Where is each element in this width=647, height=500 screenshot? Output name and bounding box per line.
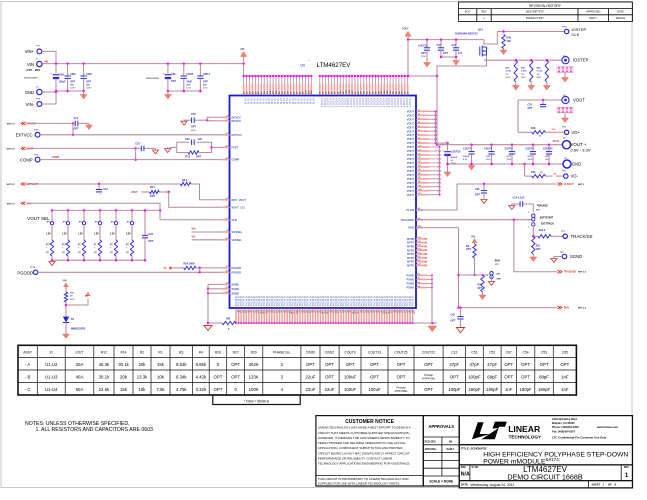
svg-text:GND: GND: [572, 161, 581, 166]
svg-text:VFB: VFB: [232, 218, 237, 222]
svg-text:OPT: OPT: [214, 387, 223, 392]
svg-text:C15: C15: [437, 44, 442, 47]
svg-text:Phone: (408)432-1900: Phone: (408)432-1900: [552, 425, 579, 429]
svg-text:6.34k: 6.34k: [176, 374, 187, 379]
svg-text:OPT: OPT: [521, 374, 530, 379]
svg-text:100uF: 100uF: [344, 374, 357, 379]
wire RUN from pin: [416, 227, 459, 229]
svg-text:OPT: OPT: [203, 81, 208, 84]
svg-text:VO+: VO+: [572, 130, 581, 135]
svg-text:L11: L11: [418, 149, 421, 151]
svg-text:SHT 3: SHT 3: [578, 184, 585, 186]
capacitor C16 1uF: [455, 40, 457, 48]
svg-text:CIRCUIT BOARD LAYOUT MAY SIGNI: CIRCUIT BOARD LAYOUT MAY SIGNIFICANTLY A…: [318, 451, 410, 455]
svg-text:OPT: OPT: [86, 81, 91, 84]
svg-text:R1: R1: [158, 351, 162, 355]
svg-text:JP6: JP6: [47, 221, 50, 223]
svg-text:30.1k: 30.1k: [99, 374, 110, 379]
svg-text:JP3: JP3: [95, 221, 98, 223]
svg-text:OPT: OPT: [70, 81, 75, 84]
svg-text:2.5V: 2.5V: [110, 234, 115, 236]
svg-text:PRODUCTION: PRODUCTION: [526, 16, 544, 20]
svg-text:35V: 35V: [86, 85, 90, 87]
svg-text:C16: C16: [452, 44, 457, 47]
svg-text:20k: 20k: [139, 362, 147, 367]
svg-text:22.6k: 22.6k: [99, 387, 110, 392]
svg-text:OPT: OPT: [74, 128, 80, 131]
linear technology logo box: [459, 416, 632, 445]
svg-text:VO+: VO+: [552, 129, 557, 131]
svg-text:TP13: TP13: [562, 26, 568, 28]
wire FSET pin: [212, 146, 223, 148]
resistor R54 OPT: [142, 191, 150, 193]
svg-text:R26: R26: [215, 351, 221, 355]
svg-text:COUT34: COUT34: [543, 148, 553, 151]
svg-text:OPT: OPT: [370, 362, 379, 367]
svg-text:OPT: OPT: [325, 362, 334, 367]
svg-text:1. ALL RESISTORS AND CAPACITO: 1. ALL RESISTORS AND CAPACITORS ARE 0603…: [36, 427, 155, 433]
svg-text:C12: C12: [451, 351, 457, 355]
svg-text:OPT: OPT: [504, 362, 513, 367]
svg-text:SUD50N04-08CP-E3: SUD50N04-08CP-E3: [455, 33, 478, 36]
svg-text:VOUT: VOUT: [407, 113, 415, 117]
resistor R26 0: [208, 322, 222, 324]
wire TRACKSS down from jumper: [532, 226, 534, 236]
svg-text:*: *: [94, 247, 95, 249]
svg-text:6.65k: 6.65k: [196, 362, 207, 367]
op-amp U1 LTM4627EV module body: [230, 96, 417, 309]
svg-text:K8: K8: [418, 282, 420, 284]
svg-text:R4: R4: [199, 351, 203, 355]
wire VFB line: [27, 203, 223, 220]
svg-text:2: 2: [487, 275, 488, 277]
wire RUN to off-page: [459, 307, 557, 309]
ground input caps: [83, 91, 85, 95]
svg-text:COUT1: COUT1: [463, 148, 472, 151]
off-page connector TRACKSS: [557, 270, 562, 273]
svg-text:VOUT: VOUT: [408, 98, 412, 108]
svg-text:EXTVCC: EXTVCC: [16, 133, 33, 138]
svg-text:1nF: 1nF: [561, 387, 569, 392]
svg-text:DIFF_VOUT: DIFF_VOUT: [232, 198, 247, 202]
svg-text:1uF: 1uF: [458, 52, 463, 55]
jumper JP6 / resistor R12 branch: [51, 209, 54, 212]
svg-text:www.linear.com: www.linear.com: [596, 425, 619, 429]
svg-text:1%: 1%: [46, 252, 49, 254]
capacitor C61: [136, 147, 141, 149]
wire SGND pins bus: [208, 283, 222, 285]
svg-text:20k: 20k: [120, 374, 128, 379]
svg-text:B12: B12: [225, 146, 228, 148]
svg-text:OPT: OPT: [536, 248, 541, 251]
ground output caps: [468, 166, 475, 171]
svg-text:1630 McCarthy Blvd.: 1630 McCarthy Blvd.: [552, 417, 578, 421]
wire output cap bank bottom rail: [448, 163, 564, 165]
wire second cap bank ground rail: [168, 90, 201, 92]
capacitor C59 OPT 0603: [181, 121, 187, 125]
svg-text:R13: R13: [186, 156, 191, 159]
svg-text:JP1: JP1: [127, 221, 130, 223]
svg-text:- B: - B: [25, 374, 31, 379]
svg-text:M12: M12: [225, 238, 229, 240]
svg-text:OPT: OPT: [150, 195, 156, 198]
svg-text:0.015: 0.015: [537, 71, 543, 73]
svg-text:MTP8: MTP8: [407, 237, 414, 241]
svg-text:VOUT: VOUT: [407, 177, 415, 181]
svg-text:COUT13: COUT13: [368, 351, 381, 355]
svg-text:4.5V - 20V: 4.5V - 20V: [26, 68, 40, 72]
svg-text:THIS CIRCUIT IS PROPRIETARY TO: THIS CIRCUIT IS PROPRIETARY TO LINEAR TE…: [318, 477, 410, 481]
IC left edge pins: [222, 116, 229, 118]
svg-text:08/2011: 08/2011: [616, 16, 626, 20]
svg-text:C69: C69: [171, 73, 176, 76]
svg-text:R29: R29: [251, 351, 257, 355]
off-page connector RUN: [557, 306, 562, 309]
wire TRACKSS to off-page: [514, 220, 557, 272]
svg-text:U1,U2: U1,U2: [45, 362, 58, 367]
capacitor C15 OPT: [440, 40, 442, 48]
wire VOUT pin bus above IC: [320, 75, 437, 77]
svg-text:VOUT: VOUT: [407, 173, 415, 177]
svg-text:L1: L1: [418, 110, 420, 112]
svg-text:VOUT_LCL: VOUT_LCL: [232, 205, 246, 209]
svg-text:100uF: 100uF: [344, 387, 357, 392]
svg-text:CLKOUT: CLKOUT: [564, 183, 574, 186]
wire EXTVCC sht line: [27, 122, 74, 124]
svg-text:180pF: 180pF: [486, 387, 499, 392]
svg-text:R26: R26: [226, 317, 231, 320]
svg-text:F12: F12: [226, 218, 229, 220]
svg-text:68pF: 68pF: [487, 374, 497, 379]
svg-text:C18: C18: [148, 233, 153, 236]
svg-text:VOUT: VOUT: [407, 121, 415, 125]
svg-text:1%: 1%: [537, 74, 540, 76]
svg-text:HOWEVER, IT REMAINS THE CUSTOM: HOWEVER, IT REMAINS THE CUSTOMER'S RESPO…: [318, 436, 411, 440]
svg-text:L6: L6: [418, 129, 420, 131]
svg-text:100pF: 100pF: [468, 374, 481, 379]
wire Q14 source to VOUT node: [437, 60, 487, 76]
svg-text:COUT22: COUT22: [422, 351, 435, 355]
svg-text:OPT: OPT: [370, 374, 379, 379]
svg-text:U1: U1: [300, 64, 305, 68]
svg-text:22uF: 22uF: [306, 387, 316, 392]
svg-text:47pF: 47pF: [487, 362, 497, 367]
wire VOSNB- stub: [192, 239, 223, 241]
resistor R18 10 VO+: [518, 131, 532, 133]
svg-text:C60: C60: [185, 138, 190, 141]
svg-text:M11: M11: [418, 193, 422, 195]
svg-text:VIN: VIN: [471, 235, 475, 238]
svg-text:DATE: DATE: [617, 10, 624, 14]
svg-text:TRACK/SS: TRACK/SS: [401, 218, 415, 222]
svg-text:10k: 10k: [139, 387, 147, 392]
svg-text:C66: C66: [475, 188, 480, 191]
svg-text:1%: 1%: [94, 252, 97, 254]
svg-text:COUT2: COUT2: [484, 148, 493, 151]
IC right edge PLLIN TRACK RUN pins: [416, 209, 423, 211]
off-page connector VFB: [21, 202, 26, 205]
svg-text:TITLE:: TITLE:: [461, 446, 470, 450]
svg-text:DESCRIPTION: DESCRIPTION: [526, 10, 544, 14]
svg-text:VOUT: VOUT: [573, 97, 585, 102]
capacitor COUT4 OPT: [532, 143, 535, 146]
svg-text:R14: R14: [120, 351, 126, 355]
svg-text:25V: 25V: [203, 85, 207, 87]
jumper JP3 / resistor R1 branch: [99, 209, 102, 212]
svg-text:4TPF470ML: 4TPF470ML: [394, 390, 408, 393]
wire output cap bank top rail: [437, 144, 562, 146]
svg-text:CIRCUIT THAT MEETS CUSTOMER-SU: CIRCUIT THAT MEETS CUSTOMER-SUPPLIED SPE…: [318, 431, 410, 435]
svg-text:VIN: VIN: [27, 62, 34, 67]
svg-text:C54: C54: [523, 351, 529, 355]
svg-text:M9: M9: [418, 185, 421, 187]
svg-text:- A: - A: [25, 362, 30, 367]
svg-text:25V: 25V: [186, 85, 190, 87]
svg-text:TRACK/SS: TRACK/SS: [564, 271, 577, 274]
svg-text:VOUT: VOUT: [407, 185, 415, 189]
svg-text:PGND: PGND: [407, 282, 415, 286]
jumper JP4 / resistor R2 branch: [83, 209, 86, 212]
svg-text:OPT: OPT: [148, 240, 154, 243]
svg-text:COUT3: COUT3: [505, 148, 514, 151]
svg-text:LINEAR TECHNOLOGY HAS MADE A B: LINEAR TECHNOLOGY HAS MADE A BEST EFFORT…: [318, 426, 411, 430]
wire RUN line to jumper: [459, 274, 489, 276]
capacitor C66 OPT: [483, 184, 485, 191]
svg-text:IOSTEP: IOSTEP: [573, 58, 589, 63]
svg-text:VOUT: VOUT: [131, 191, 138, 194]
svg-text:R18: R18: [531, 127, 536, 130]
svg-text:TRACKSS: TRACKSS: [537, 204, 549, 207]
wire R34 to PGOOD pin: [196, 267, 222, 269]
resistor R34 100K: [173, 267, 184, 269]
svg-text:OPT: OPT: [346, 362, 355, 367]
ground SGND: [204, 326, 212, 331]
svg-text:4TPF470ML: 4TPF470ML: [422, 377, 436, 380]
svg-text:R27: R27: [233, 351, 239, 355]
svg-text:Wednesday, August 24, 2011: Wednesday, August 24, 2011: [471, 483, 515, 487]
capacitor COUT1 150uF 6.3V: [470, 143, 473, 146]
svg-text:MTP5: MTP5: [407, 248, 414, 252]
svg-text:ASSY: ASSY: [23, 351, 33, 355]
svg-text:OPT: OPT: [560, 362, 569, 367]
svg-text:40A: 40A: [76, 374, 84, 379]
svg-text:100K: 100K: [249, 387, 259, 392]
svg-text:REV.: REV.: [624, 466, 630, 469]
svg-text:PGND: PGND: [407, 278, 415, 282]
svg-text:SOFTSTART: SOFTSTART: [540, 217, 554, 220]
capacitor CIN13 22uF: [183, 64, 185, 76]
svg-text:OPT: OPT: [191, 126, 197, 129]
svg-text:OPT: OPT: [397, 374, 406, 379]
linear technology logo: [472, 422, 507, 440]
svg-text:M8: M8: [418, 286, 421, 288]
ground second cap bank: [167, 91, 169, 95]
svg-text:OPT: OPT: [545, 156, 550, 158]
svg-text:*: *: [62, 247, 63, 249]
svg-text:A12: A12: [225, 197, 228, 200]
capacitor CIN1 150uF: [55, 64, 57, 74]
capacitor COUT19 OPT: [426, 40, 428, 48]
svg-text:1nF: 1nF: [561, 374, 569, 379]
svg-text:OPT: OPT: [171, 80, 176, 83]
svg-text:MTP2: MTP2: [407, 260, 414, 264]
off-page connector DIFFVOUT: [21, 182, 26, 185]
ground C61: [153, 147, 155, 149]
svg-text:VOUT: VOUT: [407, 153, 415, 157]
svg-text:OPT: OPT: [424, 362, 433, 367]
svg-text:C74: C74: [74, 117, 79, 120]
revision history table: [459, 2, 633, 22]
svg-text:VOUT: VOUT: [407, 165, 415, 169]
svg-text:M8: M8: [418, 181, 421, 183]
customer notice box: [316, 416, 423, 486]
svg-text:CIN1: CIN1: [59, 73, 65, 76]
approvals box: [423, 416, 459, 486]
svg-text:3.3V: 3.3V: [126, 234, 131, 236]
svg-text:VIN-: VIN-: [26, 102, 35, 107]
svg-text:Milpitas, CA 95035: Milpitas, CA 95035: [552, 421, 575, 425]
svg-text:U1-U4: U1-U4: [45, 387, 58, 392]
wire Q14 drain: [483, 40, 485, 45]
svg-text:VOUT: VOUT: [407, 125, 415, 129]
svg-text:OPT: OPT: [325, 374, 334, 379]
svg-text:NOTES: UNLESS OTHERWISE SPECIF: NOTES: UNLESS OTHERWISE SPECIFIED,: [25, 421, 130, 427]
svg-text:R12: R12: [101, 351, 107, 355]
svg-text:MTP3: MTP3: [407, 256, 414, 260]
svg-text:CIN13: CIN13: [186, 73, 193, 76]
svg-text:133K: 133K: [249, 374, 259, 379]
svg-text:PGND: PGND: [411, 296, 415, 306]
svg-text:L10: L10: [418, 145, 421, 147]
svg-text:CIN2: CIN2: [70, 73, 76, 76]
svg-text:47pF: 47pF: [449, 362, 459, 367]
wire PGOOD line: [38, 271, 223, 273]
svg-text:0.6V - 3.3V: 0.6V - 3.3V: [571, 148, 591, 153]
ground COUT19: [426, 61, 428, 63]
svg-text:APPLICATION. COMPONENT SUBSTI: APPLICATION. COMPONENT SUBSTITUTION AND …: [318, 446, 403, 450]
svg-text:CIN22: CIN22: [325, 351, 335, 355]
svg-text:TECHNOLOGY APPLICATIONS ENGINE: TECHNOLOGY APPLICATIONS ENGINEERING FOR …: [318, 462, 411, 466]
svg-text:RUN: RUN: [408, 226, 414, 230]
svg-text:INTVCC: INTVCC: [232, 119, 242, 123]
wire VOUT right vertical bus: [435, 111, 437, 143]
svg-text:ON: ON: [497, 274, 501, 276]
svg-text:0.015: 0.015: [521, 71, 527, 73]
svg-text:SHT 2,3: SHT 2,3: [7, 148, 16, 150]
svg-text:47pF: 47pF: [470, 362, 480, 367]
svg-text:30.1k: 30.1k: [118, 362, 129, 367]
IC right edge PGND pins: [416, 274, 432, 276]
size and ic number box: [459, 465, 632, 481]
svg-text:C65: C65: [562, 351, 568, 355]
svg-text:PHASE No.: PHASE No.: [273, 351, 290, 355]
svg-text:TRACK/SS: TRACK/SS: [571, 234, 593, 239]
svg-text:SHEET: SHEET: [592, 483, 601, 487]
wire VOUT SEL top rail: [52, 209, 160, 211]
ground R49: [500, 50, 507, 55]
svg-text:OPT: OPT: [306, 362, 315, 367]
svg-text:VOSNB+: VOSNB+: [232, 230, 243, 234]
svg-text:MMBZ5237B: MMBZ5237B: [71, 327, 85, 330]
svg-text:OPT: OPT: [486, 156, 491, 158]
wire C15 C16 ground rail: [441, 56, 456, 58]
svg-text:APP ENG.: APP ENG.: [425, 448, 437, 451]
svg-text:OPT: OPT: [507, 156, 512, 158]
svg-text:VIN: VIN: [63, 279, 67, 282]
wire PGND bus: [236, 322, 437, 324]
svg-text:4.42k: 4.42k: [196, 374, 207, 379]
ground FSET network: [170, 146, 177, 148]
svg-text:SGND: SGND: [570, 254, 582, 259]
svg-text:0.015: 0.015: [506, 71, 512, 73]
svg-text:- C: - C: [25, 387, 31, 392]
svg-text:E11: E11: [418, 245, 421, 247]
svg-text:COUT25: COUT25: [394, 351, 407, 355]
wire VIN pin bus above IC: [244, 64, 312, 76]
svg-text:22uF: 22uF: [325, 387, 335, 392]
PGND pins bottom comb: [235, 309, 237, 324]
svg-text:L5: L5: [418, 125, 420, 127]
svg-text:DATE:: DATE:: [461, 483, 469, 487]
svg-text:470uF: 470uF: [451, 156, 458, 159]
wire PLLIN stub: [416, 209, 457, 211]
ground C66: [481, 200, 487, 204]
svg-text:180pF: 180pF: [520, 387, 533, 392]
VIN pins top comb: [243, 76, 245, 95]
svg-text:PLLIN: PLLIN: [407, 208, 415, 212]
capacitor C74 OPT: [73, 122, 75, 124]
svg-text:OPT: OPT: [196, 156, 202, 159]
svg-text:1.5V: 1.5V: [78, 234, 83, 236]
svg-text:COMP: COMP: [232, 158, 240, 162]
wire VOUT terminal line: [518, 99, 562, 101]
svg-text:35V: 35V: [70, 85, 74, 87]
svg-text:R34 100K: R34 100K: [184, 262, 195, 265]
ground R46: [546, 82, 548, 86]
svg-text:A11: A11: [225, 157, 228, 160]
wire DIFFVOUT line: [27, 183, 181, 185]
svg-text:RUN: RUN: [495, 260, 500, 262]
wire Q14 source to sense rail: [484, 55, 487, 60]
svg-text:GND: GND: [25, 90, 34, 95]
svg-text:OFF: OFF: [497, 279, 502, 281]
svg-text:OPT: OPT: [504, 374, 513, 379]
svg-text:E12: E12: [418, 249, 421, 251]
wire VOUT top rail: [408, 39, 484, 41]
wire TRACKSS line: [416, 219, 532, 221]
wire right PGND drop: [431, 275, 433, 323]
off-page connector CLKOUT: [557, 182, 562, 185]
svg-text:ECO: ECO: [465, 10, 471, 14]
capacitor CIN2 OPT: [67, 64, 69, 76]
IC right edge VOUT pins: [416, 110, 436, 112]
svg-text:* FSW = 500KHz: * FSW = 500KHz: [244, 400, 270, 404]
svg-text:COMP: COMP: [52, 156, 60, 159]
svg-text:35SVP150MXV: 35SVP150MXV: [24, 78, 39, 80]
svg-text:L8: L8: [418, 137, 420, 139]
svg-text:1.0V: 1.0V: [46, 234, 51, 236]
jumper JP1 / resistor R4 branch: [131, 209, 134, 212]
svg-text:MTP6: MTP6: [407, 245, 414, 249]
capacitor CIN14 OPT: [199, 64, 201, 76]
svg-text:SGND: SGND: [232, 283, 240, 287]
wire DIFFVOUT to pin: [191, 184, 222, 200]
svg-text:10K: 10K: [507, 40, 512, 43]
ground R47: [530, 82, 532, 86]
svg-text:MTP7: MTP7: [407, 241, 414, 245]
svg-text:SHT 2,3: SHT 2,3: [7, 203, 16, 205]
svg-text:MTP1: MTP1: [407, 264, 414, 268]
